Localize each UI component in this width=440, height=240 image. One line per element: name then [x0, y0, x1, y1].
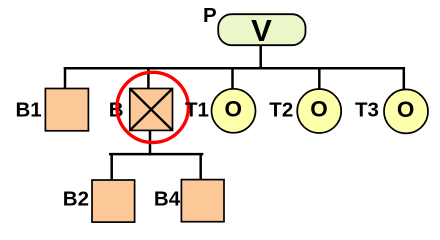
wire: main horizontal rail: [64, 67, 405, 70]
svg-text:B1: B1: [16, 98, 42, 121]
label B: [109, 98, 124, 121]
wire: second horizontal rail: [109, 153, 203, 156]
svg-text:O: O: [224, 96, 242, 121]
label P: [203, 4, 217, 27]
svg-text:B2: B2: [63, 188, 89, 211]
node V (root stadium): [218, 13, 305, 48]
svg-text:P: P: [203, 4, 217, 27]
red ellipse marker around B: [117, 72, 188, 142]
label T2: [269, 98, 293, 121]
svg-text:T3: T3: [355, 98, 379, 121]
label T3: [355, 98, 379, 121]
wire: drop to B2: [110, 153, 113, 181]
wire: stem from B down to second rail: [149, 130, 152, 155]
wire: drop to T2: [318, 67, 321, 90]
wire: drop to T3: [403, 67, 406, 91]
label T1: [185, 98, 209, 121]
wire: stem from V down to main rail: [259, 45, 262, 68]
node T3 (circle): [384, 89, 428, 133]
node T1 (circle): [212, 89, 256, 133]
label B2: [63, 188, 89, 211]
label B4: [154, 187, 181, 210]
svg-text:B4: B4: [154, 187, 181, 210]
node B4 (square): [181, 180, 224, 222]
node B2 (square): [92, 180, 135, 222]
node B (crossed square): [130, 89, 173, 131]
svg-text:T1: T1: [185, 98, 209, 121]
svg-text:T2: T2: [269, 98, 293, 121]
node B1 (square): [45, 89, 88, 131]
svg-text:V: V: [251, 13, 272, 48]
node T2 (circle): [297, 89, 341, 133]
svg-text:O: O: [310, 97, 328, 122]
label B1: [16, 98, 42, 121]
wire: drop to T1: [231, 67, 234, 90]
svg-text:O: O: [397, 97, 415, 122]
wire: drop to B4: [199, 153, 202, 180]
wire: drop to B1: [64, 67, 67, 89]
wire: drop to B: [147, 67, 150, 89]
